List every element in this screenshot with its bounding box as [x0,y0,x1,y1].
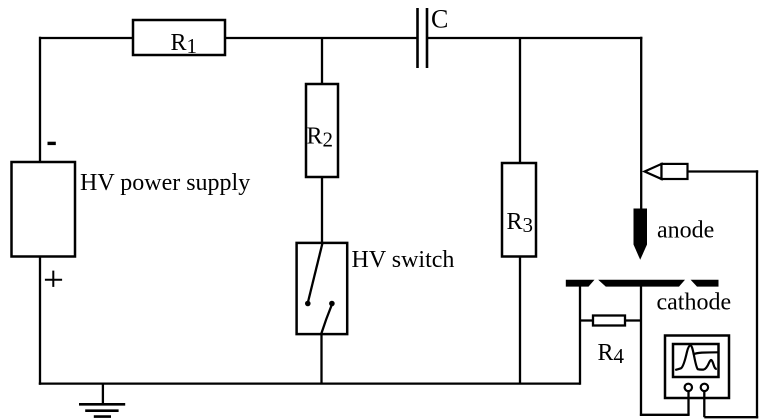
resistor R2 [306,84,338,177]
switch arm lower [321,305,332,335]
wire bottom rail [39,382,580,384]
wire right vertical [756,170,758,418]
cathode segment 1 [566,280,595,287]
svg-text:HV power supply: HV power supply [80,170,250,196]
wire R3 bottom [519,257,521,385]
oscilloscope outer box [665,336,729,399]
cathode segment 2 [598,280,685,287]
wire scope right terminal drop [703,391,705,417]
oscilloscope screen [673,344,719,377]
wire top rail left segment [39,37,134,39]
wire cathode left drop [579,286,581,385]
wire R2 top drop [321,38,323,84]
probe arrowhead [645,164,662,179]
wire top rail right segment [427,37,642,39]
svg-text:R4: R4 [598,340,625,368]
svg-text:cathode: cathode [657,290,732,316]
wire R4 right lead [625,319,641,321]
svg-text:C: C [431,5,448,34]
ground [102,384,104,405]
wire bottom right horizontal [704,416,758,418]
wire R4 left lead [580,319,593,321]
capacitor C [416,8,419,68]
switch contact dot lower [329,301,335,307]
svg-text:R3: R3 [507,209,534,237]
resistor R3 [502,163,536,257]
svg-text:R2: R2 [307,124,334,152]
probe body [662,164,688,179]
waveform upper trace [693,352,718,354]
wire cathode center drop [640,286,642,416]
wire probe to right [688,170,759,172]
switch contact dot upper [305,301,311,307]
svg-text:R1: R1 [171,30,198,58]
wire scope left terminal drop [687,391,689,415]
wire anode drop [640,37,642,210]
wire bottom middle horizontal [640,414,690,416]
plus terminal label [45,271,62,287]
wire R2 to switch [321,177,323,243]
wire left vertical [39,37,41,162]
svg-text:anode: anode [657,218,714,244]
cathode segment 3 [691,280,719,287]
scope terminal left [685,384,692,391]
resistor R1 [133,20,225,55]
switch arm upper [308,243,323,302]
wire switch bottom [320,334,322,384]
wire power supply bottom [39,257,41,385]
wire top rail middle segment [225,37,417,39]
HV switch box [297,243,348,334]
scope terminal right [701,384,708,391]
svg-text:HV switch: HV switch [352,247,455,273]
minus terminal label [48,142,56,145]
resistor R4 [593,316,625,326]
anode electrode [634,209,648,260]
HV power supply box [12,162,76,257]
waveform main trace [675,345,717,370]
wire R3 top drop [519,38,521,163]
